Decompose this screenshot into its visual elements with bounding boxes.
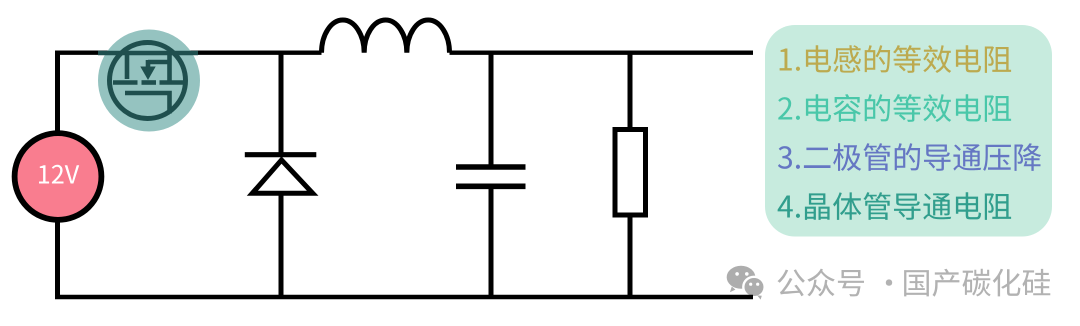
capacitor C1 top plate bbox=[456, 164, 526, 170]
wire: left branch (source bottom lead) bbox=[55, 219, 60, 297]
wire: diode branch top bbox=[279, 53, 284, 155]
voltage source V1 12V bbox=[15, 133, 102, 220]
wire: top rail from source to output node bbox=[55, 51, 753, 55]
watermark text 公众号·国产碳化硅 bbox=[778, 269, 1051, 297]
capacitor C1 bottom plate bbox=[456, 184, 526, 190]
wire: bottom return rail bbox=[55, 295, 753, 300]
wire: capacitor branch bottom bbox=[489, 186, 494, 297]
wire: resistor branch top bbox=[628, 53, 633, 129]
watermark logo bubbles bbox=[727, 266, 765, 300]
label 12V bbox=[39, 165, 79, 184]
note 4: 4.晶体管导通电阻 bbox=[778, 192, 1012, 220]
transistor Q1 highlight disc bbox=[98, 30, 200, 132]
resistor R1 body bbox=[615, 130, 646, 216]
wire: resistor branch bottom bbox=[628, 215, 633, 297]
wire: capacitor branch top bbox=[489, 53, 494, 167]
annotation box bbox=[765, 25, 1052, 237]
diode D1 triangle bbox=[252, 160, 312, 193]
note 1: 1.电感的等效电阻 bbox=[780, 45, 1012, 73]
wire: diode branch bottom bbox=[279, 193, 284, 297]
transistor Q1 MOSFET symbol bbox=[98, 43, 198, 119]
inductor L1 bbox=[322, 20, 450, 53]
diode D1 cathode bar bbox=[245, 152, 316, 157]
note 3: 3.二极管的导通压降 bbox=[778, 143, 1041, 171]
wire: left branch (source top lead) bbox=[55, 51, 60, 135]
note 2: 2.电容的等效电阻 bbox=[778, 94, 1011, 122]
